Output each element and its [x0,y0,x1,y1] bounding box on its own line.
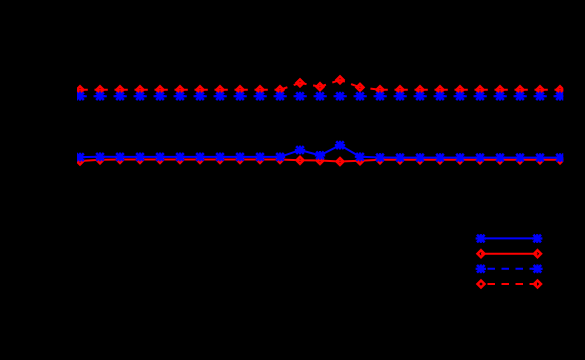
markers: bottom red diamonds [77,156,564,165]
legend entry 2: red solid line sample [478,250,542,257]
series: bottom red solid line (diamond series) [77,160,564,162]
legend entry 3: blue dashed line sample [476,264,543,273]
series: top red dashed line (diamond series) [75,80,381,90]
series: top blue dashed line (star series) [74,95,564,97]
markers: bottom blue stars [75,141,565,162]
series: bottom blue solid line (star series) [77,145,564,158]
markers: top blue stars [75,92,565,101]
legend entry 1: blue solid line sample [476,234,543,243]
legend entry 4: red dashed line sample [478,281,542,288]
markers: top red diamonds [77,76,564,93]
